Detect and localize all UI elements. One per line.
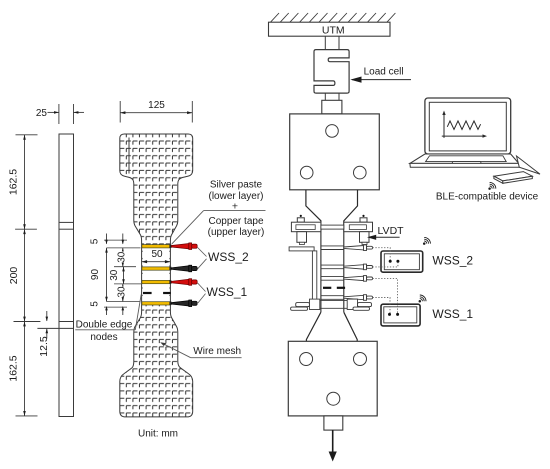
svg-text:Silver paste: Silver paste: [210, 179, 263, 190]
WSS connector probe on tape 4 (black): [169, 300, 197, 307]
svg-text:Wire mesh: Wire mesh: [193, 346, 241, 357]
svg-text:UTM: UTM: [322, 24, 345, 36]
svg-text:5: 5: [90, 238, 101, 244]
dotted link rod3 to WSS_1: [373, 278, 398, 313]
dimension 30 (tape1-tape2): [122, 248, 124, 267]
svg-text:5: 5: [90, 301, 101, 307]
WSS_1 sensor box: [381, 304, 420, 326]
lower shaft: [324, 416, 343, 430]
dimension 90: [106, 248, 108, 302]
dotted link rod1 to WSS_2: [373, 248, 391, 260]
lower grip box: [288, 341, 377, 416]
dotted link rod4 to WSS_1: [373, 298, 391, 314]
svg-text:162.5: 162.5: [8, 355, 20, 381]
upper shaft: [324, 36, 326, 49]
WSS_1 label (left figure) with leaders: [198, 283, 206, 292]
dimension 162.5 (bottom section): [24, 322, 26, 416]
upper grip box: [290, 114, 380, 190]
svg-text:WSS_2: WSS_2: [208, 250, 249, 264]
svg-text:Load cell: Load cell: [364, 66, 404, 77]
upper grip pin hole bottom-left: [300, 166, 313, 179]
specimen gauge section (right figure): [320, 222, 322, 312]
wireless icon WSS_1: [419, 295, 426, 302]
svg-text:WSS_2: WSS_2: [432, 253, 473, 267]
svg-text:BLE-compatible device: BLE-compatible device: [436, 191, 539, 202]
UTM crosshead bar: [269, 22, 391, 36]
double edge node marks (left figure): [143, 292, 152, 294]
WSS_2 label (left figure) with leaders: [198, 248, 207, 257]
WSS connector probe on tape 2 (black): [169, 265, 197, 272]
LVDT clamp right: [344, 218, 373, 245]
dimension 5 (bottom): [106, 309, 108, 315]
svg-text:162.5: 162.5: [8, 169, 20, 195]
svg-text:200: 200: [8, 267, 20, 285]
upper grip pin hole bottom-right: [354, 166, 367, 179]
double edge node marks (right figure): [323, 287, 331, 289]
laptop base right wedge: [517, 156, 541, 174]
dotted link rod2 to WSS_2: [373, 263, 398, 267]
mounting rod 1 (to WSS_2): [321, 245, 373, 251]
dimension 5 (top): [106, 234, 108, 244]
svg-text:50: 50: [151, 249, 163, 260]
svg-text:Double edge: Double edge: [76, 320, 133, 331]
svg-text:25: 25: [36, 108, 48, 119]
laptop front edge: [410, 163, 519, 167]
dimension 162.5 (top section): [15, 135, 37, 229]
dimension 50 (gauge width): [142, 261, 171, 263]
mounting rod 3 (to WSS_1): [321, 276, 373, 282]
WSS connector probe on tape 3 (red): [169, 279, 197, 286]
svg-text:(upper layer): (upper layer): [208, 227, 265, 238]
svg-text:30: 30: [116, 251, 127, 263]
svg-text:30: 30: [109, 269, 120, 281]
copper tape 4: [142, 302, 170, 305]
dimension 30 (tape2-tape3, middle): [123, 267, 125, 284]
copper tape 2: [142, 267, 170, 270]
svg-text:30: 30: [116, 286, 127, 298]
WSS_2 sensor box: [381, 251, 423, 272]
lower grip pin hole top-right: [354, 353, 367, 366]
lower grip pin hole bottom: [327, 392, 340, 405]
svg-text:Copper tape: Copper tape: [208, 216, 263, 227]
upper grip pin hole top: [326, 125, 339, 138]
lower grip pin hole top-left: [300, 353, 313, 366]
bottom clamp assembly: [291, 299, 372, 310]
wireless icon near dongle: [489, 182, 496, 189]
laptop keyboard deck: [410, 154, 519, 163]
neck dimension extension lines: [104, 240, 141, 307]
copper tape 1: [142, 245, 170, 248]
dimension 12.5 (edge offset): [46, 311, 48, 321]
specimen upper shoulder in machine: [306, 190, 358, 222]
dimension 200 (middle section): [24, 229, 26, 321]
mounting rod 4: [321, 295, 373, 301]
ceiling hatching: [271, 13, 396, 22]
svg-text:90: 90: [90, 269, 101, 281]
svg-text:LVDT: LVDT: [378, 225, 405, 237]
mounting rod 2: [321, 264, 373, 270]
LVDT clamp left: [291, 218, 321, 245]
svg-text:WSS_1: WSS_1: [207, 285, 248, 299]
mesh seam line in top head: [128, 138, 130, 174]
BLE dongle (3D slab): [494, 172, 532, 181]
dimension 30 (tape3-tape4): [122, 284, 124, 302]
svg-text:125: 125: [148, 100, 165, 111]
laptop screen: [425, 98, 511, 154]
wireless icon WSS_2: [423, 237, 430, 244]
svg-text:Unit: mm: Unit: mm: [138, 429, 178, 440]
WSS connector probe on tape 1 (red): [169, 243, 197, 250]
svg-text:12.5: 12.5: [38, 336, 50, 357]
svg-text:nodes: nodes: [90, 332, 117, 343]
loading direction arrow: [332, 430, 334, 453]
dog-bone specimen outline with wire mesh fill: [120, 134, 193, 417]
dimension 125 (head width): [120, 101, 192, 123]
graph zigzag trace: [447, 121, 480, 129]
support bracket (left of gauge): [289, 247, 314, 251]
white gauge strip between copper tapes: [143, 248, 170, 302]
coupling block: [322, 100, 342, 114]
clamp crossing bar: [321, 225, 344, 229]
lower shaft of load cell: [324, 93, 326, 100]
graph on screen: axes: [443, 113, 445, 138]
specimen lower shoulder in machine: [306, 312, 357, 341]
load cell (S-type): [314, 50, 349, 94]
copper tape 3: [142, 280, 170, 283]
svg-text:WSS_1: WSS_1: [432, 307, 473, 321]
side view bar of specimen: [37, 134, 73, 417]
dimension 25 (side bar width): [48, 104, 85, 124]
